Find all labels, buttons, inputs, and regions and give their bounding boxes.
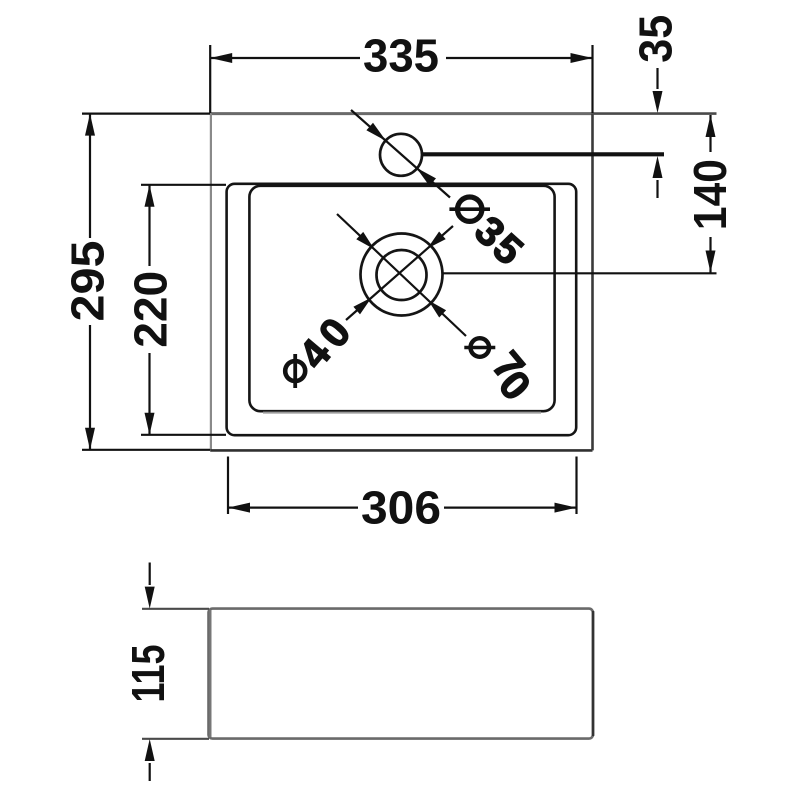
waste leader line NW-SE [337, 214, 466, 336]
dim 295 arrow up [85, 114, 95, 136]
dim 306 arrow right [555, 503, 577, 513]
dim 306 line right seg [444, 507, 577, 509]
dim 35 arrow up [653, 156, 663, 178]
waste inner circle [377, 250, 427, 300]
dim 115 arrow up [145, 739, 155, 761]
svg-text:35: 35 [629, 15, 681, 63]
outer rect right edge [591, 114, 594, 451]
dim 115 arrow down [145, 587, 155, 609]
dim 35 line upper [656, 68, 658, 89]
tap hole leader line [351, 110, 450, 198]
waste arrow SW [353, 297, 371, 314]
label dia40 symbol [285, 361, 305, 381]
svg-text:306: 306 [361, 482, 441, 534]
tap hole circle [380, 134, 422, 176]
dim 115 ext line bottom [142, 738, 209, 740]
dim 35 arrow down [653, 91, 663, 113]
side view rect [209, 609, 594, 739]
dim 220 arrow down [145, 413, 155, 435]
label dia70 symbol [471, 338, 490, 357]
svg-text:115: 115 [122, 645, 174, 703]
dim 35 line lower [656, 180, 658, 198]
dim 140 line lower [709, 237, 711, 273]
waste arrow NW [356, 232, 374, 249]
dim 295 line upper seg [89, 114, 91, 238]
basin rim rounded rect [227, 184, 577, 435]
dim 306 ext line left [227, 457, 229, 515]
basin inner bottom soft band [263, 412, 541, 414]
outer rect top edge [210, 112, 592, 115]
dim 115 line lower tail [149, 763, 151, 781]
dim 220 line upper seg [148, 185, 150, 266]
dim 335 ext line right [591, 45, 593, 113]
dim 220 ext line bottom [141, 434, 226, 436]
svg-text:140: 140 [684, 159, 736, 230]
dim 335 arrow left [210, 53, 232, 63]
waste arrow SE [428, 300, 446, 317]
side view right edge [592, 611, 595, 736]
dim 306 ext line right [575, 457, 577, 515]
waste leader line NE-SW [346, 226, 453, 320]
waste outer circle [361, 234, 443, 316]
dim 220 arrow up [145, 185, 155, 207]
tap leader arrow NW [366, 123, 386, 141]
dim 295 ext line top [82, 112, 210, 114]
dim 306 line left seg [228, 507, 358, 509]
label dia35 symbol [458, 197, 482, 221]
dim 115 ext line top [142, 608, 209, 610]
dim 335 line left seg [210, 57, 360, 59]
dim 295 line lower seg [89, 325, 91, 450]
dim 140 arrow up [706, 115, 716, 137]
dim 140 arrow down [706, 251, 716, 273]
dim 335 ext line left [209, 45, 211, 113]
dim 220 ext line top [141, 184, 226, 186]
top edge extension line right [593, 112, 717, 115]
dim 140 line upper [709, 115, 711, 152]
dim 115 line upper tail [149, 563, 151, 586]
side view left edge [209, 610, 211, 737]
outer rect bottom edge [210, 449, 592, 452]
dim 335 line right seg [446, 57, 593, 59]
waste center reference line [443, 272, 717, 274]
basin inner rounded rect [249, 186, 554, 411]
dim 306 arrow left [228, 503, 250, 513]
dim 220 line lower seg [148, 353, 150, 435]
waste arrow NE [427, 232, 445, 249]
outer rect left edge [210, 114, 212, 451]
svg-text:295: 295 [62, 241, 114, 322]
dim 295 ext line bottom [82, 449, 210, 451]
dim 335 arrow right [571, 53, 593, 63]
tap hole reference line [423, 152, 665, 156]
svg-text:335: 335 [363, 30, 439, 82]
svg-text:220: 220 [125, 271, 177, 348]
dim 295 arrow down [85, 428, 95, 450]
tap leader arrow SE [416, 168, 436, 186]
